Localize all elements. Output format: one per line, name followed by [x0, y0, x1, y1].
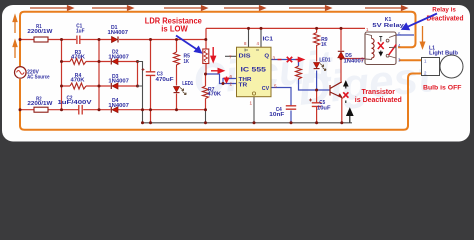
- svg-text:1uF/400V: 1uF/400V: [58, 100, 93, 106]
- wire D5 column: [340, 28, 342, 81]
- annotation red down arrow at TR: [225, 77, 229, 83]
- svg-text:Q: Q: [264, 53, 269, 59]
- diode D2 1N4007: [108, 50, 129, 65]
- diode D5 1N4007 flyback: [338, 51, 364, 64]
- capacitor C5 10uF electrolytic: [309, 99, 331, 112]
- svg-text:2: 2: [230, 81, 233, 86]
- svg-text:2200/1W: 2200/1W: [27, 29, 52, 35]
- svg-text:LED1: LED1: [319, 57, 330, 63]
- svg-text:1uF: 1uF: [76, 28, 85, 34]
- wire LED1 cathode to base node: [316, 71, 318, 91]
- current flow arrow 4 (top): [224, 6, 265, 10]
- junction dots bottom rail: [19, 108, 208, 111]
- junction dots R3 row: [60, 60, 101, 63]
- wire R3-D2 row: [62, 61, 138, 63]
- wire left branch vertical: [61, 40, 63, 110]
- svg-text:10uF: 10uF: [317, 105, 331, 111]
- svg-text:1: 1: [250, 101, 253, 106]
- svg-text:DIS: DIS: [239, 53, 252, 59]
- wire ground rail: [143, 122, 353, 124]
- wire IC pin7 DIS stub: [225, 55, 237, 57]
- annotation black up arrow at collector: [344, 82, 348, 104]
- current flow arrow 6 (top): [365, 6, 407, 10]
- wire IC pin1 to ground: [253, 97, 255, 123]
- op-amp timer U1 IC 555: [237, 36, 274, 96]
- wire relay pin5 NC stub: [396, 34, 414, 36]
- resistor R1 2200/1W: [27, 24, 52, 42]
- junction dots D2 D3 cathodes: [136, 60, 139, 88]
- svg-text:3: 3: [273, 55, 276, 60]
- resistor R4 470K: [70, 73, 86, 89]
- wire R9-LED1 column: [316, 28, 318, 61]
- capacitor C2 1uF/400V: [58, 95, 93, 114]
- junction dots ground rail: [141, 121, 343, 124]
- svg-text:AC Source: AC Source: [27, 74, 50, 80]
- svg-text:10nF: 10nF: [269, 112, 284, 118]
- wire C3 column: [150, 40, 152, 123]
- junction dots top rail: [19, 38, 208, 41]
- capacitor C1 1uF: [76, 24, 85, 44]
- LDR light sensor: [203, 49, 209, 64]
- current flow down arrow (right, near relay): [420, 26, 424, 48]
- wire LDR-R7 column: [205, 40, 208, 110]
- junction dots VCC rail: [247, 27, 343, 30]
- wire C5 lower lead: [316, 90, 318, 123]
- wire IC pins 8 and 4 stubs: [249, 28, 262, 47]
- LED1 indicator (right): [314, 57, 331, 70]
- svg-text:5: 5: [274, 83, 277, 88]
- wire THR-TR sense net: [206, 74, 237, 84]
- wire VCC rail: [206, 27, 365, 29]
- junction dot base node: [315, 57, 342, 92]
- svg-text:Bulb is OFF: Bulb is OFF: [423, 84, 462, 91]
- wire Q1 emitter to ground: [341, 98, 343, 123]
- svg-text:5V Relay: 5V Relay: [372, 23, 404, 29]
- wire D2 D3 cathode link (dark): [137, 62, 143, 123]
- svg-text:is Deactivated: is Deactivated: [355, 97, 402, 104]
- wire neutral to ground drop: [205, 110, 207, 123]
- svg-text:1K: 1K: [321, 42, 327, 48]
- svg-text:1N4007: 1N4007: [108, 54, 129, 60]
- svg-text:Relay is: Relay is: [432, 6, 456, 13]
- AC source V1 220V: [14, 67, 49, 81]
- diode D4 1N4007: [108, 98, 129, 113]
- capacitor C4 10nF: [269, 106, 296, 118]
- diode D3 1N4007: [108, 74, 129, 89]
- wire R5-LED1 column: [176, 40, 178, 110]
- annotation red down arrow at LDR: [211, 47, 215, 62]
- svg-text:1N4007: 1N4007: [108, 30, 129, 36]
- annotation blue arrow to relay: [403, 14, 438, 30]
- transistor Q1 NPN: [330, 82, 342, 98]
- svg-text:CV: CV: [262, 86, 270, 92]
- current flow arrow 3 (top): [164, 6, 207, 10]
- junction dots R4 row: [60, 85, 101, 88]
- svg-text:470uF: 470uF: [156, 77, 174, 83]
- svg-text:470K: 470K: [71, 77, 85, 83]
- annotation no-current X at emitter: [343, 92, 348, 97]
- wire right branch vertical: [98, 40, 100, 110]
- svg-text:is LOW: is LOW: [161, 25, 188, 34]
- current flow up arrow (left lower): [13, 41, 17, 59]
- wire D2-D3 cathode vertical: [137, 62, 139, 87]
- resistor R3 470K: [70, 50, 86, 64]
- LED1 indicator (left): [174, 81, 194, 95]
- capacitor C3 470uF electrolytic: [142, 68, 174, 83]
- wire top rail (live): [20, 28, 206, 39]
- wire relay coil pin2: [341, 58, 365, 60]
- diode D1 1N4007: [108, 25, 129, 43]
- relay K1 5V: [365, 17, 404, 64]
- annotation no-output X on pin3 net: [278, 57, 304, 62]
- annotation black up arrow at emitter: [347, 109, 353, 123]
- svg-text:1K: 1K: [184, 59, 190, 65]
- lamp L1 light bulb: [422, 45, 464, 78]
- svg-text:470K: 470K: [208, 92, 222, 98]
- resistor R5 1K: [174, 52, 191, 67]
- svg-text:LED1: LED1: [182, 81, 193, 87]
- svg-text:6: 6: [230, 74, 233, 79]
- resistor R7 470K: [203, 86, 222, 99]
- resistor R2 2200/1W: [27, 97, 52, 113]
- current flow arrow 5 (top): [289, 6, 331, 10]
- svg-text:TR: TR: [239, 83, 248, 89]
- current flow arrow 2 (top): [92, 6, 133, 10]
- resistor R9 1K: [314, 33, 328, 49]
- wire bottom rail (neutral): [20, 109, 206, 111]
- svg-text:IC1: IC1: [263, 36, 274, 42]
- wire CV to C4: [271, 88, 292, 123]
- annotation blue arrow to LDR: [176, 36, 201, 53]
- svg-text:Transistor: Transistor: [362, 89, 396, 96]
- wire AC mains loop (orange): [20, 12, 423, 130]
- svg-text:IC 555: IC 555: [241, 66, 267, 73]
- svg-text:470K: 470K: [71, 55, 85, 61]
- wire IC pin3 output net: [271, 60, 330, 91]
- svg-text:2200/1W: 2200/1W: [27, 101, 52, 107]
- current flow arrow 1 (top): [30, 6, 73, 10]
- current flow up arrow (left upper): [13, 16, 17, 34]
- svg-text:1N4007: 1N4007: [108, 79, 129, 85]
- annotation red arrow toward THR: [211, 69, 224, 73]
- svg-text:7: 7: [229, 54, 232, 59]
- resistor R8 base resistor: [296, 66, 302, 80]
- wire R4-D3 row: [62, 85, 138, 87]
- junction dot node THR: [204, 73, 225, 86]
- svg-text:1N4007: 1N4007: [108, 103, 129, 109]
